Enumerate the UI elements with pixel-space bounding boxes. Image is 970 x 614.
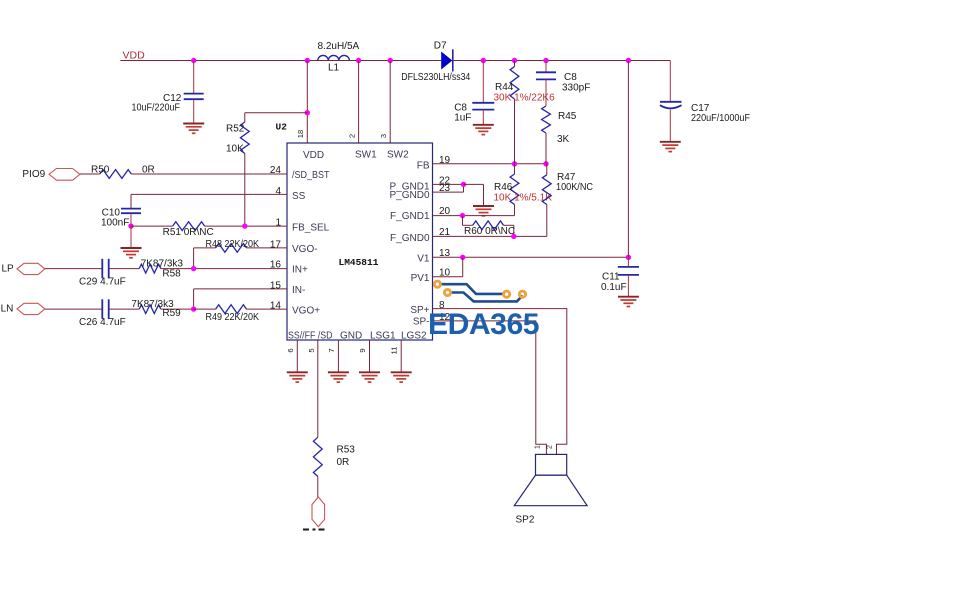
- svg-text:FB_SEL: FB_SEL: [292, 223, 330, 234]
- label R58 value: [141, 259, 184, 270]
- port LP: [17, 263, 45, 274]
- pin number 9: [358, 348, 367, 352]
- resistor R60: [463, 216, 514, 237]
- svg-text:10uF/220uF: 10uF/220uF: [132, 103, 181, 114]
- wire F_GND1 pin 20: [433, 215, 515, 217]
- label C11 value: [601, 282, 627, 293]
- svg-text:PV1: PV1: [411, 273, 430, 284]
- label port dashes: [303, 529, 325, 531]
- svg-text:R51 0R\NC: R51 0R\NC: [163, 227, 214, 238]
- label R45 value: [557, 134, 570, 145]
- svg-text:LP: LP: [2, 263, 15, 274]
- label R44: [495, 82, 514, 93]
- svg-text:LM45811: LM45811: [339, 257, 379, 268]
- label C11: [602, 272, 620, 283]
- pin number 10: [439, 268, 451, 279]
- label L1: [328, 63, 340, 74]
- pin number 6: [286, 348, 295, 352]
- resistor R59: [109, 305, 194, 314]
- pin number 15: [270, 280, 282, 291]
- label R49: [206, 312, 260, 323]
- svg-text:VGO-: VGO-: [292, 244, 318, 255]
- capacitor C8 330pF: [536, 61, 556, 107]
- label C10: [102, 207, 121, 218]
- svg-text:6: 6: [286, 348, 295, 352]
- speaker SP2: [514, 454, 587, 505]
- wire LP to C29: [45, 268, 102, 270]
- svg-text:/SD_BST: /SD_BST: [292, 170, 330, 181]
- capacitor C29: [102, 259, 108, 279]
- wire pin 2 stub: [358, 61, 360, 144]
- junction pin3 tap: [388, 58, 393, 63]
- junction V1/C11: [626, 255, 631, 260]
- junction R44 tap: [512, 58, 517, 63]
- svg-text:0.1uF: 0.1uF: [601, 282, 627, 293]
- label R50: [91, 164, 110, 175]
- svg-text:8.2uH/5A: 8.2uH/5A: [318, 41, 360, 52]
- junction F_GND1/R60: [460, 213, 465, 218]
- label R59 value: [131, 299, 174, 310]
- resistor R58: [109, 264, 287, 273]
- svg-text:VDD: VDD: [303, 150, 324, 161]
- junction FB/R44: [512, 161, 517, 166]
- ground C11: [618, 297, 639, 307]
- junction L1 left / pin18: [305, 58, 310, 63]
- wire pin 18 stub: [306, 61, 308, 144]
- ground C10: [121, 226, 142, 258]
- ground pin 7: [328, 372, 349, 382]
- wire pin 5 stub: [317, 340, 319, 437]
- svg-text:9: 9: [358, 348, 367, 352]
- svg-text:19: 19: [439, 155, 451, 166]
- junction IN- node: [191, 306, 196, 311]
- svg-text:U2: U2: [276, 122, 288, 133]
- pin number 22: [439, 175, 451, 186]
- label C29: [79, 277, 126, 288]
- svg-text:C26 4.7uF: C26 4.7uF: [79, 317, 126, 328]
- label R48: [206, 239, 260, 250]
- pin number 12: [439, 312, 451, 323]
- svg-text:0R: 0R: [142, 164, 155, 175]
- label R51: [163, 227, 214, 238]
- watermark trace 2: [452, 293, 523, 302]
- junction C8-330pF tap: [543, 58, 548, 63]
- label C26: [79, 317, 126, 328]
- svg-text:10: 10: [439, 268, 451, 279]
- resistor R47: [542, 164, 551, 237]
- svg-text:R45: R45: [558, 111, 577, 122]
- svg-text:1: 1: [535, 445, 542, 449]
- junction R52 bottom: [242, 223, 247, 228]
- port PIO9: [49, 169, 80, 181]
- designator U2: [276, 122, 288, 133]
- wire pin 11 stub: [400, 340, 402, 372]
- label R46: [494, 182, 513, 193]
- svg-text:C11: C11: [602, 272, 620, 283]
- port shutdown: [312, 497, 325, 527]
- watermark pad 1: [434, 281, 440, 287]
- ground C17: [660, 142, 681, 152]
- wire SP- pin 12: [433, 321, 547, 455]
- wire PV1 pin 10: [433, 257, 463, 277]
- label PIO9: [22, 169, 45, 180]
- label C17: [691, 103, 710, 114]
- svg-text:LGS2: LGS2: [401, 331, 427, 342]
- svg-text:16: 16: [270, 260, 282, 271]
- svg-text:4: 4: [275, 186, 281, 197]
- svg-text:24: 24: [270, 165, 282, 176]
- ground pin 6: [287, 372, 308, 382]
- pin number 17: [270, 240, 282, 251]
- label C8-330 name: [564, 72, 577, 83]
- label R47 value: [556, 182, 593, 193]
- watermark pad 2: [444, 289, 450, 295]
- wire pin 9 stub: [369, 340, 371, 372]
- svg-text:17: 17: [270, 240, 282, 251]
- junction PV1 tee: [460, 255, 465, 260]
- svg-text:1: 1: [275, 218, 281, 229]
- svg-text:D7: D7: [434, 40, 447, 51]
- svg-text:R44: R44: [495, 82, 514, 93]
- svg-text:R58: R58: [162, 268, 181, 279]
- svg-text:IN+: IN+: [292, 265, 308, 276]
- svg-text:10K: 10K: [226, 144, 244, 155]
- svg-text:100nF: 100nF: [101, 217, 129, 228]
- label D7 value: [401, 72, 470, 83]
- label LN: [1, 303, 14, 314]
- pin number 7: [327, 348, 336, 352]
- svg-text:21: 21: [439, 227, 451, 238]
- wire pin 3 stub: [389, 61, 391, 144]
- wire P_GND0 pin 23: [433, 184, 464, 192]
- svg-text:100K/NC: 100K/NC: [556, 182, 593, 193]
- resistor R53: [313, 437, 322, 497]
- svg-text:2: 2: [547, 445, 554, 449]
- watermark pad 3: [504, 291, 510, 297]
- junction C8 tap: [481, 58, 486, 63]
- pin number 23: [439, 183, 451, 194]
- power net VDD rail: [120, 60, 670, 62]
- wire P_GND1 pin 22: [433, 183, 464, 185]
- label C12: [132, 93, 182, 114]
- junction V1 branch: [626, 58, 631, 63]
- junction FB/R45: [543, 161, 548, 166]
- wire LN to C26: [45, 308, 102, 310]
- wire pin 6 stub: [296, 340, 298, 372]
- svg-text:GND: GND: [340, 331, 362, 342]
- label C8 value: [454, 113, 471, 124]
- svg-text:2: 2: [348, 134, 357, 138]
- inductor L1: [318, 55, 350, 60]
- junction R52 tee: [305, 110, 310, 115]
- label R53: [337, 445, 356, 456]
- ground C8: [473, 125, 494, 135]
- svg-text:7: 7: [327, 348, 336, 352]
- svg-text:R48 22K/20K: R48 22K/20K: [206, 239, 260, 250]
- svg-text:V1: V1: [417, 254, 430, 265]
- svg-text:13: 13: [439, 248, 451, 259]
- label R45: [558, 111, 577, 122]
- svg-text:R50: R50: [91, 164, 110, 175]
- pin number 16: [270, 260, 282, 271]
- label SP2: [516, 515, 535, 526]
- svg-text:P_GND0: P_GND0: [389, 190, 429, 201]
- pin number 3: [379, 134, 388, 138]
- svg-text:VDD: VDD: [123, 50, 146, 62]
- watermark EDA365: [428, 308, 539, 341]
- resistor R51: [131, 222, 287, 231]
- watermark trace 1: [441, 284, 503, 294]
- label R59: [162, 308, 181, 319]
- svg-text:SP2: SP2: [516, 515, 535, 526]
- ground pin 11: [391, 372, 412, 382]
- pin number 20: [439, 206, 451, 217]
- capacitor C26: [102, 299, 108, 319]
- capacitor C17: [660, 61, 682, 142]
- pin number 21: [439, 227, 451, 238]
- svg-text:0R: 0R: [337, 457, 350, 468]
- resistor R44: [510, 61, 519, 164]
- svg-text:LN: LN: [1, 303, 14, 314]
- ground P_GND: [464, 184, 495, 215]
- svg-text:14: 14: [270, 301, 282, 312]
- svg-text:R52: R52: [226, 124, 245, 135]
- port LN: [17, 303, 45, 314]
- pin number 18: [296, 130, 305, 138]
- svg-text:R59: R59: [162, 308, 181, 319]
- svg-text:1uF: 1uF: [454, 113, 471, 124]
- resistor R49: [194, 305, 287, 314]
- svg-text:R53: R53: [337, 445, 356, 456]
- wire SP+ pin 8: [433, 309, 567, 455]
- label R60: [464, 226, 515, 237]
- svg-text:R60 0R\NC: R60 0R\NC: [464, 226, 515, 237]
- svg-text:C29 4.7uF: C29 4.7uF: [79, 277, 126, 288]
- label R46 value: [494, 193, 553, 204]
- resistor R45: [542, 106, 551, 164]
- resistor R46: [510, 164, 519, 216]
- svg-text:5: 5: [307, 348, 316, 352]
- junction C10/R51/gnd: [128, 223, 133, 228]
- svg-text:LSG1: LSG1: [370, 331, 396, 342]
- capacitor C11: [618, 257, 639, 296]
- svg-text:SP-: SP-: [413, 317, 430, 328]
- junction IN+ node: [191, 266, 196, 271]
- svg-text:330pF: 330pF: [562, 83, 590, 94]
- svg-text:SW2: SW2: [387, 150, 409, 161]
- svg-text:EDA365: EDA365: [428, 308, 539, 341]
- pin number speaker 2: [547, 445, 554, 449]
- pin number 19: [439, 155, 451, 166]
- svg-text:F_GND0: F_GND0: [390, 233, 430, 244]
- label D7: [434, 40, 447, 51]
- IC U2 pin names: [288, 150, 430, 342]
- pin number 24: [270, 165, 282, 176]
- svg-text:F_GND1: F_GND1: [390, 211, 430, 222]
- svg-text:FB: FB: [417, 161, 430, 172]
- svg-text:R49 22K/20K: R49 22K/20K: [206, 312, 260, 323]
- label R58: [162, 268, 181, 279]
- svg-text:SS//FF /SD: SS//FF /SD: [288, 331, 333, 342]
- svg-text:SP+: SP+: [410, 305, 429, 316]
- resistor R48: [194, 244, 287, 269]
- svg-text:3K: 3K: [557, 134, 570, 145]
- svg-text:IN-: IN-: [292, 285, 305, 296]
- watermark pad 4: [519, 291, 525, 297]
- net label VDD: [123, 50, 146, 62]
- capacitor C12: [184, 61, 204, 124]
- svg-text:23: 23: [439, 183, 451, 194]
- ground pin 9: [359, 372, 380, 382]
- svg-text:220uF/1000uF: 220uF/1000uF: [691, 113, 750, 124]
- label LM45811: [339, 257, 379, 268]
- label R44 value: [494, 93, 556, 104]
- ground C12: [183, 124, 204, 134]
- junction P_GND tee: [461, 182, 466, 187]
- svg-text:PIO9: PIO9: [22, 169, 45, 180]
- label L1 value: [318, 41, 360, 52]
- label R47: [557, 172, 576, 183]
- pin number 14: [270, 301, 282, 312]
- resistor R52: [240, 113, 307, 227]
- svg-text:3: 3: [379, 134, 388, 138]
- capacitor C8 1uF: [472, 61, 494, 125]
- wire F_GND0 pin 21: [433, 235, 547, 237]
- svg-text:15: 15: [270, 280, 282, 291]
- label R50 value: [142, 164, 155, 175]
- label LP: [2, 263, 15, 274]
- svg-text:SS: SS: [292, 191, 306, 202]
- wire FB pin 19: [433, 163, 547, 165]
- svg-text:SW1: SW1: [355, 150, 377, 161]
- label C17 value: [691, 113, 750, 124]
- resistor R50: [80, 170, 287, 179]
- label R53 value: [337, 457, 350, 468]
- wire SS pin 4: [131, 194, 287, 208]
- pin number 5: [307, 348, 316, 352]
- label C8: [454, 103, 467, 114]
- svg-text:C8: C8: [564, 72, 577, 83]
- wire IN- pin 15: [194, 289, 287, 309]
- pin number 2: [348, 134, 357, 138]
- IC U2 body: [287, 143, 433, 340]
- svg-text:R46: R46: [494, 182, 513, 193]
- pin number speaker 1: [535, 445, 542, 449]
- wire V1 pin 13: [433, 256, 629, 258]
- svg-text:L1: L1: [328, 63, 340, 74]
- svg-text:20: 20: [439, 206, 451, 217]
- label C10 value: [101, 217, 129, 228]
- pin number 4: [275, 186, 281, 197]
- junction C12 tap: [191, 58, 196, 63]
- svg-text:11: 11: [390, 347, 399, 355]
- pin number 13: [439, 248, 451, 259]
- junction R60/pin21: [511, 234, 516, 239]
- label R52: [226, 124, 245, 135]
- svg-text:18: 18: [296, 130, 305, 138]
- svg-text:DFLS230LH/ss34: DFLS230LH/ss34: [401, 72, 470, 83]
- pin number 1: [275, 218, 281, 229]
- pin number 11: [390, 347, 399, 355]
- label R52 value: [226, 144, 244, 155]
- label C8-330 value: [562, 83, 590, 94]
- pin number 8: [439, 300, 445, 311]
- diode D7: [441, 49, 453, 71]
- svg-text:VGO+: VGO+: [292, 306, 320, 317]
- capacitor C10: [121, 209, 141, 227]
- wire VDD to V1: [627, 61, 629, 258]
- wire pin 7 stub: [337, 340, 339, 372]
- junction L1 right / pin2: [356, 58, 361, 63]
